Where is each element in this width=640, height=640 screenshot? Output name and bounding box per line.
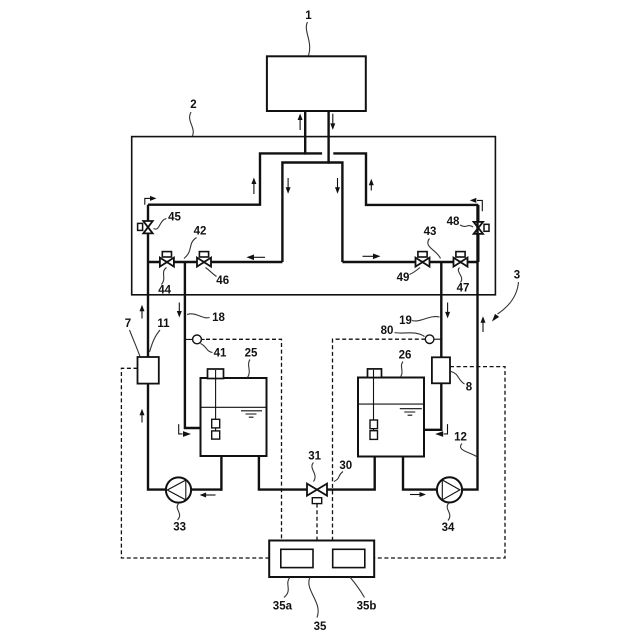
- leader for 42: [184, 238, 197, 259]
- arrow up beside outer-right vertical: [369, 179, 374, 191]
- svg-text:48: 48: [447, 216, 460, 228]
- svg-text:35b: 35b: [357, 601, 377, 613]
- leader for 41: [201, 344, 213, 353]
- sensor circle 41: [185, 335, 205, 344]
- sensor circle 80: [425, 335, 441, 344]
- svg-text:7: 7: [125, 318, 131, 330]
- valve 45: [138, 221, 153, 233]
- svg-text:80: 80: [381, 325, 394, 337]
- leader for 8: [451, 372, 465, 385]
- leader for 48: [460, 225, 473, 227]
- valve 49: [416, 252, 430, 267]
- control dash from sensor80 to controller: [333, 339, 426, 540]
- arrow down beside line 18: [177, 303, 182, 318]
- svg-text:34: 34: [442, 522, 455, 534]
- flag arrow at tank25 inlet: [179, 424, 191, 437]
- leader for 18: [187, 314, 210, 318]
- control dash from sensor41 to controller: [206, 339, 282, 540]
- svg-text:2: 2: [190, 99, 196, 111]
- leader for 47: [458, 268, 461, 283]
- svg-text:25: 25: [245, 348, 258, 360]
- arrow down beside line B: [330, 114, 335, 130]
- wire left manifold horizontal: [148, 261, 282, 263]
- box 2 (outer unit): [132, 137, 496, 295]
- wire line 18 branch down into tank 25: [185, 262, 201, 428]
- controller box 35: [269, 541, 374, 578]
- leader for 44: [162, 268, 167, 285]
- flag arrow at tank26 inlet: [435, 424, 447, 437]
- control dash from valve31 to controller: [316, 504, 318, 541]
- leader for 49: [410, 268, 421, 275]
- tank 26: [358, 369, 424, 457]
- leader for 19: [412, 317, 440, 321]
- arrow down beside inner-left vertical: [286, 178, 291, 194]
- svg-text:33: 33: [173, 522, 186, 534]
- leader for 11: [150, 330, 161, 352]
- arrow left at pump 33: [200, 493, 216, 498]
- arrow up beside outer-left vertical: [251, 178, 256, 195]
- wire inner U (to box1 right line): [282, 163, 342, 263]
- leader for 30: [334, 472, 343, 482]
- wire outer-left: top horizontal + down + left horizontal: [148, 153, 322, 204]
- svg-text:18: 18: [212, 312, 225, 324]
- leader for 2: [190, 112, 194, 136]
- leader for 7: [130, 330, 141, 357]
- box 7 (heater left): [138, 357, 159, 384]
- svg-text:1: 1: [305, 10, 312, 22]
- leader for 43: [428, 239, 441, 259]
- pump 33: [166, 477, 191, 502]
- wire from box1 right (line B): [327, 111, 329, 164]
- leader for 35: [309, 577, 318, 617]
- svg-text:8: 8: [466, 382, 473, 394]
- wire from box1 left (line A): [304, 111, 306, 155]
- box 8 (heater right): [432, 357, 450, 383]
- svg-text:47: 47: [457, 282, 470, 294]
- arrow up beside line 12: [481, 316, 486, 332]
- svg-text:31: 31: [308, 451, 321, 463]
- wire line 7 left vertical down to pump: [148, 205, 166, 490]
- wire tank25 right outlet: [259, 456, 307, 490]
- leader for 25: [248, 360, 251, 378]
- wire line 19 branch down into tank 26: [424, 262, 441, 430]
- wire tank26 left outlet: [327, 457, 375, 490]
- wire tank25 left outlet: [220, 456, 222, 491]
- svg-text:35a: 35a: [273, 601, 293, 613]
- svg-text:35: 35: [314, 621, 327, 633]
- arrow left on left manifold: [246, 255, 265, 261]
- sub-box 35a: [281, 549, 313, 567]
- arrow up beside line A: [298, 114, 303, 131]
- leader for 46: [206, 268, 217, 277]
- svg-text:11: 11: [157, 318, 170, 330]
- arrow up on line7 above box7: [140, 305, 145, 319]
- svg-text:43: 43: [424, 226, 437, 238]
- svg-text:26: 26: [399, 350, 412, 362]
- tank 25: [201, 369, 267, 456]
- leader for 31: [312, 463, 315, 482]
- arrow down beside inner-right vertical: [335, 178, 340, 194]
- leader for 1: [306, 22, 309, 56]
- svg-text:42: 42: [194, 226, 207, 238]
- pump 34: [437, 477, 462, 502]
- leader for 12: [460, 444, 476, 457]
- valve 44: [160, 252, 174, 267]
- leader for 45: [154, 219, 167, 230]
- svg-text:44: 44: [158, 285, 171, 297]
- svg-text:41: 41: [214, 348, 227, 360]
- wire valve48 branch vertical: [477, 205, 479, 262]
- sub-box 35b: [333, 549, 365, 567]
- svg-text:3: 3: [514, 270, 520, 282]
- leader for 35a: [284, 577, 290, 597]
- arrow right on right manifold: [363, 254, 381, 260]
- arrow up on line7 below box7: [140, 409, 145, 423]
- svg-text:30: 30: [339, 460, 352, 472]
- flag arrow at left corner: [145, 196, 157, 205]
- wire pump33 suction: [191, 488, 221, 490]
- control dash from box8 to controller: [375, 367, 505, 558]
- svg-text:45: 45: [168, 212, 181, 224]
- leader for 26: [401, 362, 404, 378]
- valve 47: [454, 252, 468, 267]
- arrow right at pump 34: [410, 492, 426, 497]
- arrow down beside line 19: [445, 303, 450, 319]
- wire outer-right: top horizontal + down + right horizontal: [333, 153, 478, 205]
- leader arrow for 3: [492, 282, 519, 322]
- control dash from box7 to controller: [121, 368, 268, 558]
- leader for 80: [395, 333, 425, 337]
- valve 46: [197, 252, 211, 267]
- valve 48: [474, 222, 489, 234]
- valve 31 (three-way): [307, 484, 327, 504]
- svg-text:12: 12: [454, 432, 467, 444]
- flag arrow at right corner: [470, 198, 483, 211]
- wire tank26 right outlet: [403, 457, 437, 490]
- svg-text:49: 49: [397, 272, 410, 284]
- leader for 33: [177, 503, 179, 520]
- leader for 34: [447, 503, 450, 521]
- leader for 35b: [350, 577, 365, 597]
- wire right manifold horizontal: [342, 261, 478, 263]
- svg-text:19: 19: [399, 315, 412, 327]
- box U1 (unit 1 top): [267, 56, 366, 111]
- svg-text:46: 46: [216, 275, 229, 287]
- wire line 12 right vertical: [462, 205, 478, 490]
